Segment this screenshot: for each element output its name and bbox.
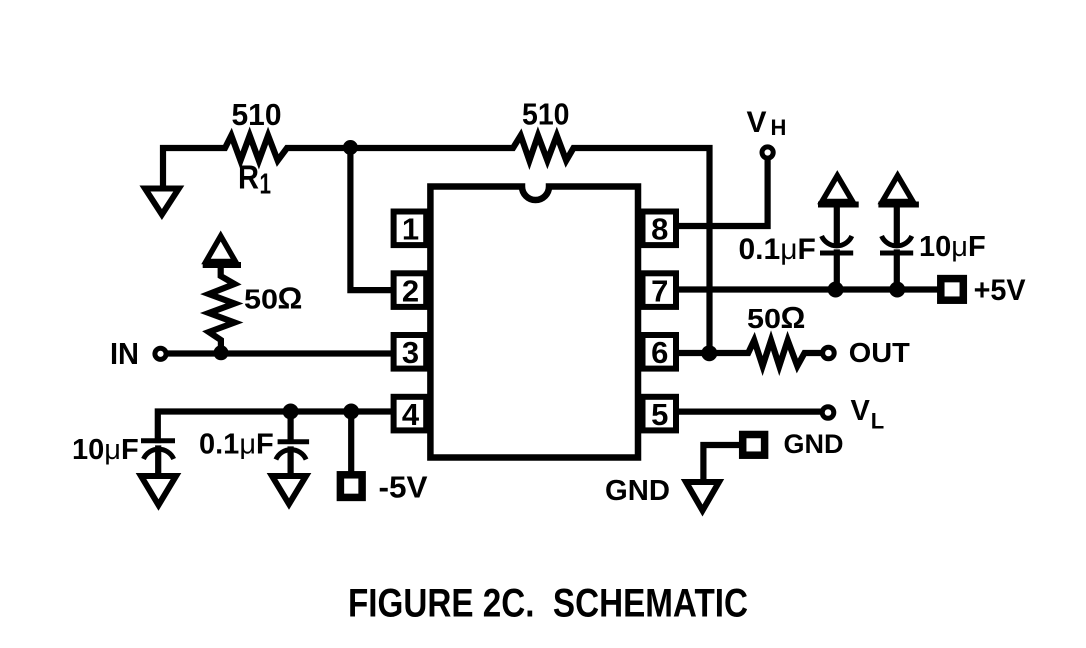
svg-text:6: 6 [651, 335, 668, 370]
svg-text:GND: GND [784, 429, 844, 459]
svg-text:50: 50 [747, 303, 781, 334]
svg-text:V: V [851, 395, 871, 427]
svg-text:FIGURE 2C. SCHEMATIC: FIGURE 2C. SCHEMATIC [348, 582, 748, 626]
svg-text:Ω: Ω [278, 281, 303, 316]
svg-text:1: 1 [402, 212, 419, 247]
svg-text:8: 8 [651, 212, 668, 247]
svg-text:R: R [238, 159, 259, 196]
svg-text:OUT: OUT [849, 337, 910, 368]
svg-text:+5V: +5V [974, 274, 1026, 307]
svg-text:10μF: 10μF [919, 231, 986, 263]
svg-text:GND: GND [605, 475, 670, 507]
svg-text:7: 7 [651, 273, 668, 308]
svg-text:10μF: 10μF [72, 434, 139, 466]
svg-text:H: H [771, 115, 787, 140]
svg-text:510: 510 [232, 97, 282, 132]
svg-text:0.1μF: 0.1μF [199, 429, 274, 461]
svg-text:L: L [871, 409, 884, 434]
svg-text:IN: IN [110, 336, 139, 371]
svg-text:Ω: Ω [781, 300, 806, 335]
svg-text:4: 4 [402, 397, 420, 432]
svg-text:5: 5 [651, 397, 668, 432]
svg-text:3: 3 [402, 335, 419, 370]
svg-text:1: 1 [260, 169, 272, 201]
svg-text:-5V: -5V [379, 470, 428, 505]
svg-text:510: 510 [522, 97, 570, 132]
svg-text:2: 2 [402, 273, 419, 308]
svg-text:0.1μF: 0.1μF [739, 233, 816, 266]
svg-text:50: 50 [244, 284, 278, 315]
svg-text:V: V [747, 106, 767, 139]
